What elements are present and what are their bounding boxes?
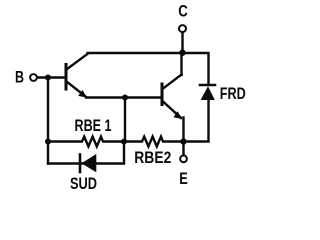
wire: B terminal to Q1 base [37, 76, 65, 78]
node: right resistor junction [121, 139, 127, 145]
diode SUD [80, 154, 96, 172]
terminal C circle [179, 25, 186, 32]
svg-text:RBE2: RBE2 [134, 148, 171, 167]
node: collector junction [179, 50, 185, 56]
svg-text:FRD: FRD [220, 84, 246, 103]
transistor Q1 [66, 54, 88, 98]
diode FRD [200, 85, 215, 100]
wire: FRD anode to E node [184, 99, 209, 142]
wire: Q2 collector riser [180, 53, 182, 75]
terminal E circle [180, 155, 187, 162]
wire: SUD bottom branch [48, 142, 124, 164]
wire: left vertical drop [47, 78, 49, 164]
node: emitter rail junction [122, 95, 128, 101]
wire: E terminal drop [182, 142, 184, 156]
wire: middle vertical drop [124, 98, 126, 142]
wire: top rail to FRD cathode [183, 53, 209, 84]
node: base junction [45, 75, 51, 81]
svg-text:C: C [178, 2, 188, 21]
wire: C terminal drop [181, 32, 183, 52]
terminal B circle [30, 74, 37, 81]
resistor RBE2 [124, 137, 184, 147]
wire: emitter rail Q1 to Q2 base [86, 96, 161, 98]
node: left resistor junction [45, 139, 51, 145]
node: E junction [180, 138, 186, 144]
resistor RBE1 [48, 137, 124, 147]
wire: Q2 emitter drop [182, 118, 184, 142]
svg-text:SUD: SUD [70, 174, 97, 193]
wire: top rail [88, 52, 183, 54]
svg-text:E: E [179, 169, 188, 188]
svg-text:RBE 1: RBE 1 [75, 116, 112, 135]
svg-text:B: B [15, 68, 24, 87]
transistor Q2 [162, 75, 182, 120]
